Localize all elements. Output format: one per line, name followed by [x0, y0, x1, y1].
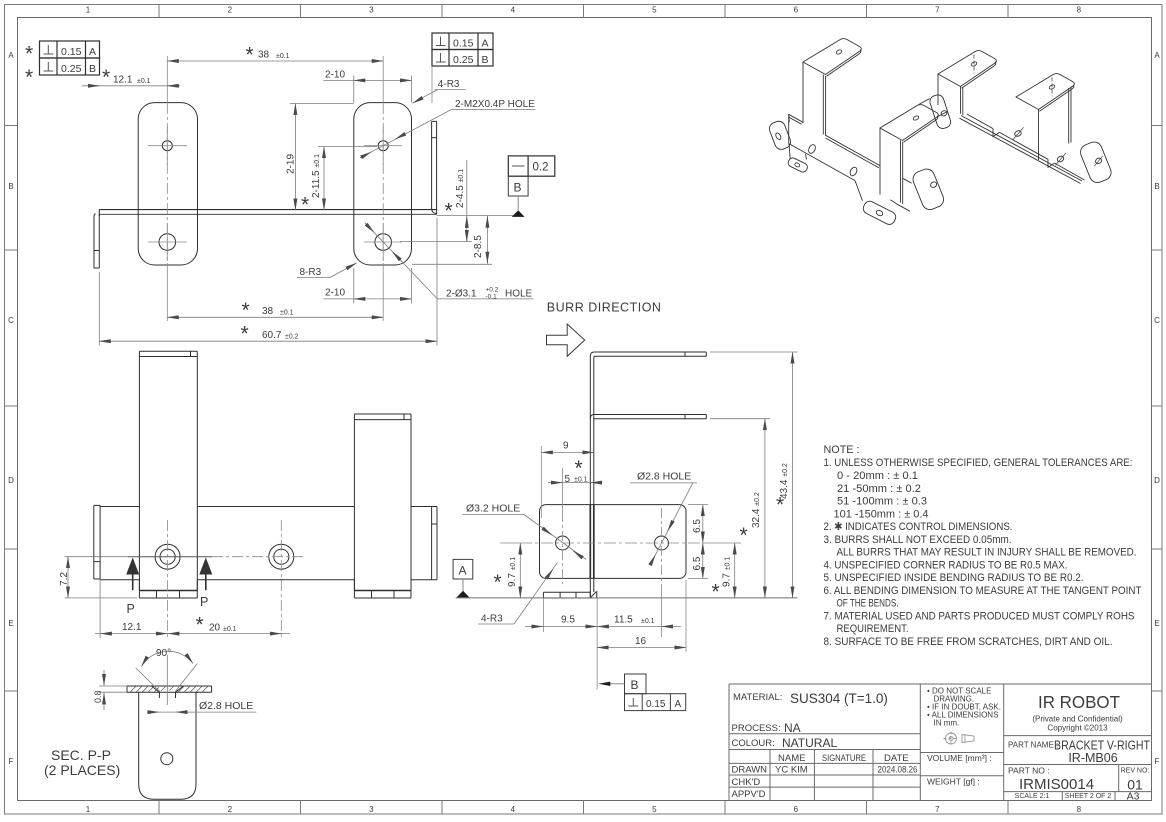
svg-text:7. MATERIAL USED AND PARTS PRO: 7. MATERIAL USED AND PARTS PRODUCED MUST… — [824, 610, 1135, 622]
svg-text:±0.1: ±0.1 — [137, 78, 151, 85]
svg-text:*: * — [242, 299, 250, 322]
svg-text:B: B — [631, 678, 639, 692]
band bottom extension — [437, 215, 523, 217]
svg-text:90°: 90° — [156, 648, 171, 659]
svg-text:0.15: 0.15 — [61, 46, 82, 58]
countersunk hole left — [155, 544, 180, 569]
datum A flag — [453, 559, 473, 597]
svg-text:±0.1: ±0.1 — [223, 626, 237, 633]
svg-text:11.5: 11.5 — [614, 615, 633, 626]
svg-text:D: D — [1154, 476, 1160, 485]
svg-text:5: 5 — [565, 474, 571, 485]
dim 43.4 — [792, 352, 794, 598]
svg-text:6.5: 6.5 — [692, 519, 703, 533]
iso right end flange A — [911, 167, 946, 212]
top view right flange strip — [432, 121, 437, 214]
iso tower T1 body — [803, 62, 826, 136]
bottom plate — [540, 505, 687, 579]
dim 2-10 top line — [323, 79, 411, 81]
svg-text:8: 8 — [1077, 6, 1082, 15]
second flange edge-on — [590, 415, 706, 419]
svg-text:*: * — [494, 571, 502, 594]
dim 9.7 left — [519, 543, 521, 598]
svg-text:NAME: NAME — [778, 753, 805, 764]
svg-text:CHK'D: CHK'D — [732, 777, 761, 788]
iso rail B slot hole 1 — [1014, 130, 1022, 138]
svg-text:OF THE BENDS.: OF THE BENDS. — [837, 598, 899, 610]
top view left flange strip — [94, 214, 99, 269]
dim 0.8 — [103, 670, 105, 710]
svg-text:A: A — [1154, 51, 1160, 60]
section cut line — [128, 556, 212, 558]
svg-text:1: 1 — [86, 6, 91, 15]
ext line left — [99, 580, 101, 638]
dim 12.1 line — [82, 85, 180, 87]
svg-text:6.5: 6.5 — [692, 556, 703, 570]
ext line hole center right — [400, 241, 472, 243]
title block outline — [729, 684, 1152, 801]
fcf top-center perpendicularity 0.15 A — [432, 33, 493, 50]
dim 38 top line — [167, 60, 383, 62]
svg-text:5. UNSPECIFIED INSIDE BENDING: 5. UNSPECIFIED INSIDE BENDING RADIUS TO … — [824, 572, 1084, 584]
svg-text:PART NAME :: PART NAME : — [1008, 741, 1058, 750]
M2 hole left — [162, 141, 172, 151]
center line left hole — [167, 520, 169, 638]
svg-text:2-8.5: 2-8.5 — [473, 235, 484, 258]
left section rows — [729, 734, 920, 787]
bottom bend tab — [543, 592, 593, 598]
svg-text:(2 PLACES): (2 PLACES) — [44, 762, 120, 778]
svg-text:BURR DIRECTION: BURR DIRECTION — [547, 301, 662, 315]
dim 2-19 line — [294, 103, 296, 210]
hatching — [130, 686, 208, 692]
svg-text:16: 16 — [635, 636, 647, 647]
svg-text:Ø2.8 HOLE: Ø2.8 HOLE — [637, 471, 691, 483]
svg-text:±0.2: ±0.2 — [285, 333, 299, 340]
svg-text:3: 3 — [369, 6, 374, 15]
svg-text:-0.1: -0.1 — [486, 294, 498, 301]
svg-text:Ø3.2 HOLE: Ø3.2 HOLE — [466, 503, 520, 515]
90 deg leader lines — [136, 664, 198, 692]
svg-text:SIGNATURE: SIGNATURE — [822, 753, 866, 763]
center lines plate holes — [563, 508, 662, 584]
svg-text:P: P — [127, 602, 135, 616]
svg-text:9.5: 9.5 — [561, 615, 575, 626]
dim 5 — [548, 482, 602, 484]
svg-text:B: B — [514, 181, 522, 195]
M2 hole right — [378, 141, 388, 151]
svg-text:7: 7 — [935, 6, 940, 15]
svg-text:PART NO :: PART NO : — [1008, 766, 1050, 776]
iso rail A bottom edge — [789, 144, 910, 212]
svg-text:4-R3: 4-R3 — [438, 79, 460, 90]
ext lines 7.2 — [65, 557, 137, 598]
dim 6.5 top — [702, 505, 704, 543]
svg-text:E: E — [8, 619, 13, 628]
P arrow left — [132, 574, 134, 590]
svg-text:2: 2 — [228, 6, 233, 15]
iso tower T3 body — [1039, 87, 1072, 161]
iso rail A top edge — [789, 114, 912, 183]
svg-text:SEC. P-P: SEC. P-P — [51, 747, 111, 763]
label dia3.2 leader — [463, 514, 525, 516]
svg-text:+0.2: +0.2 — [486, 287, 499, 294]
iso T3 flange hole — [1049, 84, 1056, 90]
ext line from fcf down — [431, 66, 433, 103]
svg-text:2-10: 2-10 — [325, 70, 345, 81]
ext lines 2-10 bottom — [354, 268, 412, 304]
hole walls — [159, 692, 175, 698]
dim 2-10 bottom line — [323, 298, 411, 300]
fcf top-center perpendicularity 0.25 B — [432, 50, 493, 67]
left bottom tab — [139, 580, 197, 598]
iso T1 flange hole — [836, 49, 843, 55]
datum B flag bottom — [598, 674, 685, 711]
svg-text:2: 2 — [228, 805, 233, 814]
svg-text:SHEET 2 OF 2: SHEET 2 OF 2 — [1065, 793, 1112, 800]
hole cross lines — [148, 127, 187, 262]
dia3.1 hole right — [375, 234, 392, 251]
svg-text:A: A — [482, 37, 489, 49]
svg-text:C: C — [1154, 316, 1160, 325]
iso rail B notch foot 1 — [993, 129, 1000, 137]
svg-text:4: 4 — [511, 805, 516, 814]
svg-text:A: A — [675, 699, 682, 710]
svg-text:38: 38 — [258, 50, 270, 61]
dia2.8 label leader — [630, 482, 697, 484]
svg-text:B: B — [89, 63, 96, 75]
svg-text:*: * — [25, 43, 33, 66]
svg-text:0.15: 0.15 — [453, 37, 474, 49]
section plate edges — [127, 686, 212, 692]
front view body top edge — [100, 506, 437, 508]
top flange edge-on — [594, 352, 706, 356]
svg-text:*: * — [445, 200, 453, 223]
iso rail A left end edge — [788, 114, 790, 143]
svg-text:B: B — [482, 54, 489, 66]
svg-text:6. ALL BENDING DIMENSION TO ME: 6. ALL BENDING DIMENSION TO MEASURE AT T… — [824, 585, 1142, 597]
svg-text:1: 1 — [86, 805, 91, 814]
P arrow right — [205, 574, 207, 590]
svg-text:Ø2.8 HOLE: Ø2.8 HOLE — [199, 700, 253, 712]
iso tower T2 body — [938, 74, 963, 115]
svg-text:IR-MB06: IR-MB06 — [1068, 751, 1117, 765]
90 deg arc — [142, 651, 194, 666]
iso tower T1 flange — [803, 39, 861, 75]
svg-text:7.2: 7.2 — [59, 572, 70, 586]
iso rail A hole 1 — [807, 144, 817, 155]
dim 7.2 line — [67, 557, 69, 598]
svg-text:IN mm.: IN mm. — [934, 719, 960, 728]
svg-text:*: * — [25, 66, 33, 89]
dia3.1 hole left — [159, 234, 176, 251]
right bottom tab — [354, 580, 411, 598]
dim 32.4 — [764, 419, 766, 598]
dim 60.7 line — [99, 340, 437, 342]
ext lines 2-10 top — [354, 76, 412, 103]
svg-text:4: 4 — [511, 6, 516, 15]
plate hole left dia3.2 — [556, 536, 570, 550]
svg-text:2. ✱ INDICATES CONTROL DIMENSI: 2. ✱ INDICATES CONTROL DIMENSIONS. — [824, 521, 1013, 533]
center line left tab vertical — [166, 56, 168, 103]
center line right tab vertical — [382, 56, 384, 103]
svg-text:*: * — [246, 44, 254, 67]
zone tick right — [1152, 126, 1163, 692]
leader 2-dia3.1 — [437, 298, 533, 300]
svg-text:NA: NA — [784, 721, 801, 735]
svg-text:HOLE: HOLE — [505, 289, 533, 300]
top view right obround tab — [354, 103, 412, 265]
iso rail B slot hole 2 — [1056, 155, 1064, 163]
svg-text:101 -150mm : ± 0.4: 101 -150mm : ± 0.4 — [834, 508, 929, 520]
svg-text:COLOUR:: COLOUR: — [732, 738, 775, 749]
section line P-P — [212, 556, 305, 558]
svg-text:38: 38 — [262, 306, 274, 317]
svg-text:2-19: 2-19 — [286, 154, 297, 174]
svg-text:ALL BURRS THAT MAY RESULT IN I: ALL BURRS THAT MAY RESULT IN INJURY SHAL… — [837, 547, 1137, 559]
svg-text:A: A — [459, 564, 467, 578]
svg-text:0.25: 0.25 — [61, 63, 82, 75]
svg-text:3. BURRS SHALL NOT EXCEED 0.05: 3. BURRS SHALL NOT EXCEED 0.05mm. — [824, 534, 1012, 546]
dim 6.5 bottom — [702, 543, 704, 578]
svg-text:NOTE :: NOTE : — [824, 444, 860, 456]
svg-text:WEIGHT [gf] :: WEIGHT [gf] : — [927, 777, 980, 787]
svg-text:NATURAL: NATURAL — [782, 736, 837, 750]
svg-text:C: C — [8, 316, 14, 325]
svg-text:3: 3 — [369, 805, 374, 814]
countersink cut — [152, 686, 184, 692]
burr direction — [547, 301, 662, 357]
svg-text:60.7: 60.7 — [262, 330, 282, 341]
dim 16 — [597, 647, 686, 649]
iso tower T3 flange — [1016, 74, 1074, 110]
iso right end flange B — [1078, 140, 1113, 185]
svg-text:6: 6 — [794, 805, 799, 814]
svg-text:REV NO:: REV NO: — [1121, 768, 1150, 775]
svg-text:B: B — [8, 182, 13, 191]
svg-text:E: E — [1154, 619, 1159, 628]
plate hole right dia2.8 — [655, 536, 669, 550]
svg-text:*: * — [712, 581, 720, 604]
svg-text:*: * — [196, 614, 204, 637]
iso rail A hole 2 — [849, 166, 859, 177]
section tab obround — [139, 692, 196, 799]
leader 8-R3 — [297, 277, 330, 279]
center line right hole — [280, 520, 282, 638]
svg-text:A3: A3 — [1127, 791, 1140, 803]
svg-text:±0.1: ±0.1 — [276, 53, 290, 60]
svg-text:IRMIS0014: IRMIS0014 — [1019, 776, 1094, 793]
front view left flange strip — [94, 505, 100, 579]
iso T2b flange hole — [913, 115, 920, 121]
svg-text:*: * — [776, 494, 784, 517]
spine vertical flange edge-on — [590, 352, 595, 598]
svg-text:D: D — [8, 476, 14, 485]
spine over plate thick — [590, 505, 594, 579]
svg-text:REQUIREMENT.: REQUIREMENT. — [837, 623, 909, 635]
svg-text:12.1: 12.1 — [122, 622, 142, 633]
svg-text:*: * — [740, 524, 748, 547]
svg-text:SUS304 (T=1.0): SUS304 (T=1.0) — [790, 691, 888, 706]
svg-text:A: A — [8, 51, 14, 60]
svg-text:DATE: DATE — [884, 753, 909, 764]
svg-text:5: 5 — [652, 805, 657, 814]
svg-text:*: * — [102, 66, 110, 89]
svg-text:IR ROBOT: IR ROBOT — [1038, 692, 1120, 712]
iso tower T2 flange — [938, 51, 996, 87]
svg-text:6: 6 — [794, 6, 799, 15]
svg-text:F: F — [9, 757, 14, 766]
svg-text:SCALE 2:1: SCALE 2:1 — [1015, 793, 1050, 800]
center line — [166, 655, 168, 705]
svg-text:±0.1: ±0.1 — [641, 618, 655, 625]
zone tick top — [159, 5, 1008, 18]
iso foot A1 — [787, 157, 809, 174]
straightness 0.2 frame — [508, 156, 555, 176]
svg-text:2024.08.26: 2024.08.26 — [878, 765, 918, 775]
left flange tick — [94, 250, 99, 252]
label 4-R3 leader — [478, 623, 514, 625]
left section columns — [770, 684, 920, 801]
dim 9.7 right — [734, 543, 736, 598]
iso behind tab copy2 left end — [928, 93, 952, 130]
svg-text:8-R3: 8-R3 — [300, 267, 322, 278]
svg-text:4. UNSPECIFIED CORNER RADIUS T: 4. UNSPECIFIED CORNER RADIUS TO BE R0.5 … — [824, 559, 1068, 571]
front view body bottom edge — [100, 579, 437, 581]
svg-text:MATERIAL:: MATERIAL: — [733, 692, 782, 703]
svg-text:2-Ø3.1: 2-Ø3.1 — [446, 289, 477, 300]
svg-text:1. UNLESS OTHERWISE SPECIFIED,: 1. UNLESS OTHERWISE SPECIFIED, GENERAL T… — [824, 457, 1133, 469]
dim 9 — [541, 451, 594, 453]
ext vertical 9 dim — [540, 446, 542, 518]
svg-text:(Private and Confidential): (Private and Confidential) — [1032, 715, 1123, 724]
ext line 2-11.5 — [318, 146, 377, 148]
svg-text:0.8: 0.8 — [93, 690, 103, 703]
leader 2-M2X0.4P — [451, 109, 535, 111]
iso tower T2b body — [880, 128, 903, 204]
datum B box under frame — [508, 176, 528, 196]
svg-text:APPV'D: APPV'D — [732, 789, 766, 800]
svg-text:20: 20 — [209, 623, 221, 634]
svg-text:0 - 20mm : ± 0.1: 0 - 20mm : ± 0.1 — [837, 470, 918, 482]
dim 38 bottom line — [167, 316, 383, 318]
countersunk hole right — [269, 544, 294, 569]
svg-text:0.15: 0.15 — [646, 699, 666, 710]
leader 4-R3 — [434, 89, 465, 91]
svg-text:0.2: 0.2 — [533, 162, 549, 174]
front view right tower — [354, 414, 411, 591]
ext line tab bottom right — [412, 263, 492, 265]
ext line 2-19 — [290, 102, 354, 104]
svg-text:YC KIM: YC KIM — [775, 765, 808, 776]
right flange tick — [432, 137, 437, 139]
svg-text:12.1: 12.1 — [113, 75, 133, 86]
svg-text:4-R3: 4-R3 — [481, 614, 503, 625]
zone tick bottom — [159, 801, 1008, 815]
front view left tower — [139, 351, 197, 590]
top view band edge-on web — [99, 210, 437, 216]
dim 2-11.5 line — [323, 147, 325, 210]
front view right flange strip — [432, 507, 437, 580]
svg-text:PROCESS:: PROCESS: — [732, 723, 781, 734]
svg-text:F: F — [1155, 757, 1160, 766]
iso rail B notch foot 2 — [1048, 159, 1055, 167]
iso connector lines center — [919, 99, 948, 117]
svg-text:8. SURFACE TO BE FREE FROM SC: 8. SURFACE TO BE FREE FROM SCRATCHES, DI… — [824, 636, 1113, 648]
dim 9.5 — [525, 626, 597, 628]
svg-text:VOLUME [mm³] :: VOLUME [mm³] : — [927, 753, 992, 763]
svg-text:P: P — [200, 595, 208, 609]
svg-text:A: A — [89, 46, 96, 58]
svg-text:2-10: 2-10 — [325, 288, 345, 299]
fcf top-left perpendicularity 0.15 A — [40, 41, 100, 58]
top view left obround tab — [138, 103, 197, 265]
svg-text:2-M2X0.4P HOLE: 2-M2X0.4P HOLE — [455, 99, 535, 110]
svg-text:Copyright ©2013: Copyright ©2013 — [1047, 724, 1108, 733]
iso T2 flange hole — [971, 61, 978, 67]
svg-text:51 -100mm : ± 0.3: 51 -100mm : ± 0.3 — [837, 496, 927, 508]
fcf top-left perpendicularity 0.25 B — [40, 58, 100, 75]
dim 12.1/20 line — [95, 633, 290, 635]
svg-text:0.25: 0.25 — [453, 54, 474, 66]
dia2.8 leader — [147, 711, 256, 713]
svg-text:5: 5 — [652, 6, 657, 15]
svg-text:*: * — [301, 194, 309, 217]
dim 11.5 — [597, 626, 681, 628]
svg-text:±0.1: ±0.1 — [280, 309, 294, 316]
tab hole — [161, 753, 173, 765]
right section lines — [1004, 736, 1152, 801]
zone tick left — [5, 126, 18, 692]
iso tower T2b flange — [880, 105, 938, 141]
baseline datum A surface — [456, 597, 798, 599]
dim 2-8.5 line — [486, 216, 488, 264]
svg-text:DRAWN: DRAWN — [732, 765, 768, 776]
third angle projection symbol — [944, 732, 975, 746]
ext verticals below — [543, 580, 686, 690]
svg-text:21 -50mm : ± 0.2: 21 -50mm : ± 0.2 — [837, 483, 921, 495]
bend corner chamfer — [590, 591, 596, 598]
svg-text:7: 7 — [935, 805, 940, 814]
svg-text:*: * — [575, 457, 583, 480]
iso left end flange — [768, 119, 793, 151]
middle section lines — [920, 684, 1003, 801]
svg-text:8: 8 — [1077, 805, 1082, 814]
svg-text:9: 9 — [563, 441, 569, 452]
iso rail B long edges — [960, 116, 1083, 184]
ext lines 60.7 — [99, 218, 437, 346]
svg-text:*: * — [241, 323, 249, 346]
dim 2-4.5 line — [466, 160, 468, 242]
svg-text:B: B — [1154, 182, 1159, 191]
iso rail B front top segments — [967, 114, 1085, 180]
iso foot A2 — [861, 199, 897, 226]
